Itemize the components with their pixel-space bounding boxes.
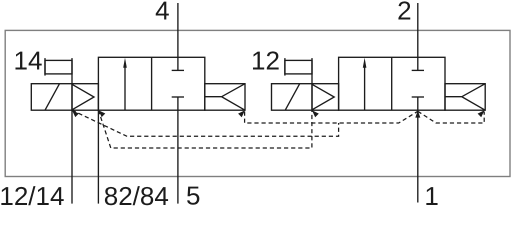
port 12/14 line (71, 110, 73, 203)
V1 blocked port 5 seat (bottom T) (172, 96, 184, 98)
V2 blocked port 2 seat (top T) (412, 69, 424, 71)
V1 pilot amplifier (72, 84, 98, 111)
port 82/84 line (97, 110, 99, 203)
valve V2 body (339, 57, 445, 110)
arrowhead at port 1 junction (415, 110, 420, 117)
internal pilot supply to V2 return (dashed) (418, 111, 484, 123)
svg-text:12/14: 12/14 (0, 181, 64, 206)
port 5 line (177, 97, 179, 204)
V1 blocked port 4 seat (top T) (172, 69, 184, 71)
arrowhead at V2 pilot (312, 110, 319, 117)
svg-text:12: 12 (251, 46, 280, 76)
arrowhead at V2 return (478, 110, 485, 117)
svg-text:2: 2 (397, 0, 411, 25)
arrowhead at 82/84 junction (98, 110, 105, 117)
V1 pneumatic spring return (205, 84, 245, 111)
port 4 line (177, 3, 179, 70)
arrowhead at V1 pilot (72, 110, 79, 117)
port 2 line (417, 3, 419, 70)
svg-text:5: 5 (186, 181, 200, 207)
V2 pneumatic spring return (445, 84, 485, 111)
V1 pilot port 14 box (45, 58, 72, 84)
svg-text:82/84: 82/84 (104, 181, 169, 206)
port 1 line (417, 97, 419, 203)
V2 blocked port 1 seat (bottom T) (412, 96, 424, 98)
enclosure frame (manifold boundary) (5, 30, 510, 176)
valve V1 body (98, 57, 204, 110)
V2 position divider (391, 57, 393, 110)
V1 solenoid coil (31, 84, 72, 111)
V1 position divider (151, 57, 153, 110)
svg-text:14: 14 (14, 46, 43, 76)
V2 pilot port 12 box (285, 58, 312, 84)
svg-text:1: 1 (424, 181, 438, 206)
arrowhead at V1 return (238, 110, 245, 117)
svg-text:4: 4 (155, 0, 169, 25)
V1 flow path arrow (123, 58, 127, 110)
internal pilot supply to V1 return (dashed) (245, 111, 418, 123)
V2 flow path arrow (363, 58, 367, 110)
pilot line from 82/84 to V2 pilot (dashed) (98, 110, 312, 148)
pilot line from 12/14 to V1 pilot (dashed) (72, 110, 339, 136)
V2 solenoid coil (272, 84, 313, 111)
V2 pilot amplifier (312, 84, 339, 111)
